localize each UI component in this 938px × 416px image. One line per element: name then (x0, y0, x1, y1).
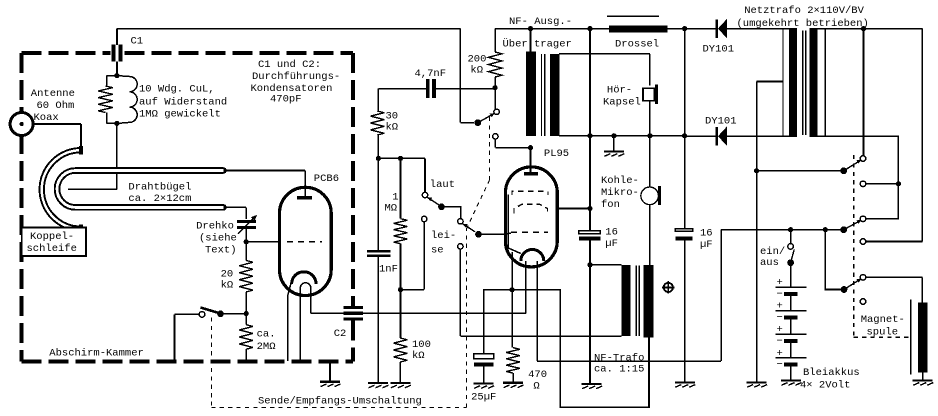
svg-text:kΩ: kΩ (386, 122, 399, 134)
svg-text:se: se (431, 245, 444, 257)
svg-text:Drehko: Drehko (196, 221, 234, 233)
svg-text:Drossel: Drossel (615, 39, 659, 51)
svg-text:kΩ: kΩ (470, 64, 483, 76)
svg-text:Abschirm-Kammer: Abschirm-Kammer (49, 347, 144, 359)
svg-text:+: + (777, 301, 783, 313)
svg-text:ca. 1:15: ca. 1:15 (594, 364, 644, 376)
svg-text:NF- Ausg.-: NF- Ausg.- (509, 16, 572, 28)
svg-text:2MΩ: 2MΩ (257, 341, 276, 353)
svg-text:Koax: Koax (34, 112, 59, 124)
svg-text:laut: laut (430, 179, 455, 191)
svg-text:Hör-: Hör- (607, 85, 632, 97)
svg-text:aus: aus (760, 257, 779, 269)
svg-text:kΩ: kΩ (221, 280, 234, 292)
svg-text:Über trager: Über trager (503, 38, 572, 51)
svg-text:−: − (777, 288, 783, 300)
svg-text:470pF: 470pF (270, 94, 302, 106)
svg-text:Mikro-: Mikro- (601, 187, 639, 199)
svg-text:NF-Trafo: NF-Trafo (594, 352, 644, 364)
svg-text:4,7nF: 4,7nF (415, 68, 447, 80)
svg-text:Bleiakkus: Bleiakkus (803, 367, 860, 379)
svg-text:MΩ: MΩ (385, 203, 398, 215)
svg-text:auf Widerstand: auf Widerstand (139, 97, 227, 109)
svg-text:C2: C2 (334, 328, 347, 340)
svg-text:C1: C1 (131, 36, 144, 48)
svg-text:PL95: PL95 (544, 148, 569, 160)
svg-text:Magnet-: Magnet- (861, 314, 905, 326)
svg-text:−: − (777, 359, 783, 371)
svg-text:+: + (777, 277, 783, 289)
svg-text:C1 und C2:: C1 und C2: (258, 59, 321, 71)
svg-text:Koppel-: Koppel- (30, 231, 74, 243)
svg-text:lei-: lei- (431, 230, 456, 242)
svg-text:Antenne: Antenne (31, 88, 75, 100)
svg-text:1MΩ gewickelt: 1MΩ gewickelt (139, 109, 221, 121)
svg-text:4× 2Volt: 4× 2Volt (800, 380, 850, 392)
svg-text:+: + (777, 348, 783, 360)
svg-text:25µF: 25µF (471, 392, 496, 404)
svg-text:µF: µF (700, 239, 713, 251)
svg-text:10 Wdg. CuL,: 10 Wdg. CuL, (139, 84, 215, 96)
svg-text:Drahtbügel: Drahtbügel (128, 182, 191, 194)
svg-text:Sende/Empfangs-Umschaltung: Sende/Empfangs-Umschaltung (258, 396, 422, 408)
svg-text:kΩ: kΩ (412, 350, 425, 362)
svg-text:DY101: DY101 (703, 44, 735, 56)
svg-text:+: + (777, 324, 783, 336)
svg-text:ca. 2×12cm: ca. 2×12cm (128, 193, 191, 205)
svg-text:Ω: Ω (533, 381, 539, 393)
svg-text:ca.: ca. (257, 329, 276, 341)
svg-text:16: 16 (700, 228, 713, 240)
svg-text:(umgekehrt betrieben): (umgekehrt betrieben) (737, 18, 869, 30)
svg-text:fon: fon (601, 199, 620, 211)
svg-text:Netztrafo 2×110V/BV: Netztrafo 2×110V/BV (744, 5, 864, 17)
svg-text:PCB6: PCB6 (314, 173, 339, 185)
svg-text:Kapsel: Kapsel (603, 97, 641, 109)
svg-text:Kohle-: Kohle- (601, 175, 639, 187)
svg-text:−: − (777, 312, 783, 324)
svg-text:DY101: DY101 (705, 116, 737, 128)
svg-text:60 Ohm: 60 Ohm (37, 100, 75, 112)
svg-text:16: 16 (605, 227, 618, 239)
svg-text:spule: spule (867, 327, 899, 339)
svg-text:schleife: schleife (27, 243, 77, 255)
svg-text:−: − (777, 336, 783, 348)
svg-text:Durchführungs-: Durchführungs- (252, 71, 340, 83)
svg-text:(siehe: (siehe (199, 233, 237, 245)
svg-text:1nF: 1nF (379, 264, 398, 276)
svg-text:470: 470 (528, 369, 547, 381)
svg-text:Text): Text) (205, 245, 237, 257)
svg-text:µF: µF (605, 238, 618, 250)
